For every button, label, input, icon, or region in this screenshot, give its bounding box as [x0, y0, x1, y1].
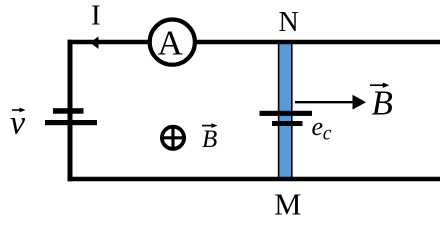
svg-text:e: e: [312, 112, 324, 141]
arrow B at rod (velocity-style arrow): [295, 101, 354, 103]
vector arrow over centre B: [202, 125, 214, 127]
vector arrow over v: [12, 109, 22, 111]
svg-text:M: M: [274, 188, 301, 222]
battery V1 short plate: [53, 108, 84, 114]
wire top rail: [68, 40, 440, 45]
current direction arrow: [90, 36, 99, 49]
vector arrow over right B: [370, 84, 385, 86]
svg-text:B: B: [202, 126, 217, 153]
svg-text:I: I: [91, 0, 101, 31]
emf e_c short plate on rod: [272, 121, 303, 126]
ammeter U1: [150, 19, 195, 64]
emf e_c long plate on rod: [260, 111, 313, 116]
field symbol B into page (circled cross): [160, 125, 186, 151]
svg-text:N: N: [279, 7, 299, 38]
wire left branch: [68, 40, 73, 182]
battery V1 long plate: [45, 120, 97, 125]
wire bottom rail: [68, 177, 440, 182]
svg-text:A: A: [158, 23, 184, 62]
rod MN (sliding conductor): [279, 43, 292, 178]
svg-text:c: c: [323, 123, 332, 144]
svg-text:B: B: [372, 84, 393, 123]
